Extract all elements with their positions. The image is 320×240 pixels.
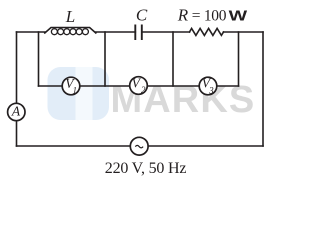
svg-text:1: 1 [72, 85, 77, 95]
svg-text:2: 2 [141, 85, 146, 95]
svg-text:220 V, 50 Hz: 220 V, 50 Hz [105, 160, 187, 177]
svg-text:C: C [136, 6, 148, 25]
svg-text:R: R [177, 6, 189, 25]
svg-text:W: W [229, 7, 249, 24]
svg-text:= 100: = 100 [192, 8, 227, 25]
svg-text:A: A [11, 103, 21, 118]
svg-text:L: L [65, 7, 75, 26]
svg-text:3: 3 [208, 85, 214, 95]
